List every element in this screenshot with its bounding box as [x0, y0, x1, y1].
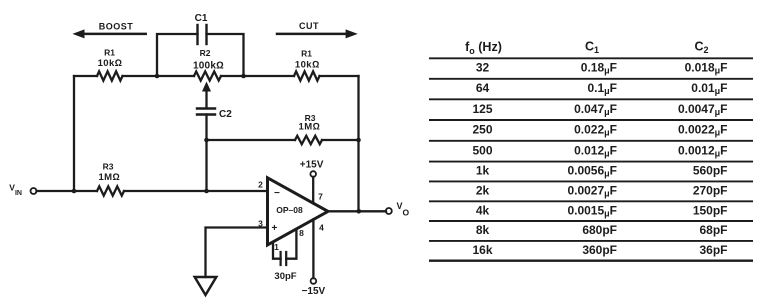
- wire pin 8 comp: [286, 229, 296, 259]
- capacitor 30pF: [281, 252, 287, 265]
- label C1: [195, 13, 208, 24]
- svg-text:+: +: [272, 223, 278, 234]
- svg-text:1k: 1k: [476, 164, 490, 178]
- label pin 7: [318, 191, 323, 201]
- table column header C1: [585, 40, 599, 56]
- table body rows: [472, 61, 727, 257]
- svg-text:7: 7: [318, 191, 323, 201]
- label pin 1: [274, 242, 279, 252]
- svg-text:C1: C1: [195, 13, 208, 24]
- terminal -15V: [311, 278, 317, 284]
- terminal VO: [386, 208, 392, 214]
- node junction C1 right: [241, 74, 246, 79]
- svg-text:10kΩ: 10kΩ: [295, 59, 320, 70]
- capacitor C2: [197, 109, 215, 115]
- svg-text:−15V: −15V: [302, 286, 326, 297]
- wire input line: [37, 190, 268, 192]
- label VO: [397, 201, 410, 217]
- wire right vertical rail: [357, 76, 359, 211]
- label pin 3: [258, 219, 263, 229]
- svg-text:4: 4: [319, 223, 324, 233]
- arrow CUT: [277, 29, 358, 38]
- wire pin 1 comp: [273, 242, 281, 259]
- op-amp U1 OP-08: [268, 178, 329, 245]
- svg-text:16k: 16k: [472, 243, 492, 257]
- label C2: [219, 109, 232, 120]
- node junction R3 right output: [356, 138, 361, 143]
- svg-text:BOOST: BOOST: [99, 22, 134, 32]
- arrow BOOST: [72, 29, 145, 38]
- label CUT: [299, 21, 319, 31]
- svg-text:0.1μF: 0.1μF: [587, 81, 617, 96]
- label R3 left value: [98, 162, 120, 184]
- svg-text:4k: 4k: [476, 203, 490, 217]
- label R1 left value: [98, 48, 123, 70]
- label pin 2: [258, 180, 263, 190]
- wire pin 7 supply: [312, 177, 314, 203]
- svg-text:250: 250: [472, 123, 492, 137]
- svg-text:10kΩ: 10kΩ: [98, 58, 123, 69]
- svg-text:R1: R1: [104, 48, 115, 58]
- potentiometer R2: [194, 72, 221, 81]
- svg-text:500: 500: [472, 143, 492, 157]
- svg-text:360pF: 360pF: [582, 243, 617, 257]
- svg-text:0.0022μF: 0.0022μF: [678, 123, 728, 138]
- svg-text:R2: R2: [200, 48, 211, 58]
- potentiometer R2 wiper arrow: [202, 82, 211, 108]
- wire node A down to summing node: [205, 140, 207, 191]
- table rules: [429, 58, 753, 260]
- svg-text:8: 8: [299, 228, 304, 238]
- label +15V: [300, 160, 324, 171]
- svg-text:36pF: 36pF: [699, 243, 727, 257]
- wire pin 4 supply: [312, 219, 314, 278]
- svg-text:0.0047μF: 0.0047μF: [678, 102, 728, 117]
- table column header fo (Hz): [465, 40, 502, 56]
- resistor R3 right: [295, 136, 322, 144]
- node junction summing: [204, 189, 209, 194]
- svg-text:−: −: [274, 188, 280, 199]
- svg-text:32: 32: [476, 61, 490, 75]
- label R2 value: [193, 48, 224, 71]
- svg-text:1: 1: [274, 242, 279, 252]
- label BOOST: [99, 22, 134, 32]
- svg-text:125: 125: [472, 102, 492, 116]
- label pin 4: [319, 223, 324, 233]
- svg-text:OP–08: OP–08: [276, 205, 303, 215]
- node junction C1 left: [155, 74, 160, 79]
- svg-text:270pF: 270pF: [693, 184, 728, 198]
- svg-text:0.047μF: 0.047μF: [574, 102, 617, 117]
- resistor R1 right: [294, 71, 320, 80]
- svg-text:1MΩ: 1MΩ: [299, 122, 321, 133]
- svg-text:1MΩ: 1MΩ: [98, 172, 120, 183]
- label op-amp OP-08: [276, 205, 303, 215]
- svg-text:0.0012μF: 0.0012μF: [678, 143, 728, 158]
- label VIN: [9, 183, 22, 197]
- svg-text:100kΩ: 100kΩ: [193, 60, 224, 71]
- resistor R1 left: [97, 71, 123, 80]
- capacitor C1: [198, 25, 207, 44]
- svg-text:R3: R3: [103, 162, 114, 172]
- terminal VIN: [31, 188, 37, 194]
- svg-text:2k: 2k: [476, 184, 490, 198]
- table column header C2: [694, 40, 708, 56]
- wire node A to R3 right: [207, 139, 359, 141]
- wire C1 branch: [157, 34, 244, 76]
- ground: [195, 277, 217, 295]
- svg-text:0.01μF: 0.01μF: [691, 81, 727, 96]
- label 30pF: [274, 271, 296, 282]
- node junction left rail input: [72, 189, 77, 194]
- wire wiper to C2 to node A: [205, 115, 207, 141]
- wire output: [328, 210, 386, 212]
- node A junction: [204, 138, 209, 143]
- svg-text:0.0015μF: 0.0015μF: [567, 203, 617, 218]
- svg-text:CUT: CUT: [299, 21, 319, 31]
- resistor R3 left: [97, 186, 124, 195]
- svg-text:8k: 8k: [476, 223, 490, 237]
- label R3 right value: [299, 113, 321, 133]
- wire left vertical rail: [73, 76, 75, 191]
- wire pin 3 to ground: [206, 228, 268, 278]
- svg-text:0.0027μF: 0.0027μF: [567, 184, 617, 199]
- label op-amp minus input: [274, 188, 280, 199]
- svg-text:2: 2: [258, 180, 263, 190]
- svg-text:0.018μF: 0.018μF: [685, 61, 728, 76]
- svg-text:68pF: 68pF: [699, 223, 727, 237]
- svg-text:680pF: 680pF: [582, 223, 617, 237]
- svg-text:150pF: 150pF: [693, 203, 728, 217]
- label op-amp plus input: [272, 223, 278, 234]
- label R1 right value: [295, 48, 320, 70]
- svg-text:C2: C2: [219, 109, 232, 120]
- svg-text:30pF: 30pF: [274, 271, 296, 282]
- terminal +15V: [310, 171, 316, 177]
- label pin 8: [299, 228, 304, 238]
- svg-text:0.012μF: 0.012μF: [574, 143, 617, 158]
- svg-text:R1: R1: [301, 48, 312, 58]
- svg-text:560pF: 560pF: [693, 164, 728, 178]
- svg-text:0.18μF: 0.18μF: [581, 61, 617, 76]
- node junction output: [357, 209, 362, 214]
- svg-text:0.022μF: 0.022μF: [574, 123, 617, 138]
- svg-text:0.0056μF: 0.0056μF: [567, 164, 617, 179]
- label -15V: [302, 286, 326, 297]
- wire top feedback rail: [74, 75, 359, 77]
- svg-text:+15V: +15V: [300, 160, 324, 171]
- svg-text:64: 64: [476, 81, 490, 95]
